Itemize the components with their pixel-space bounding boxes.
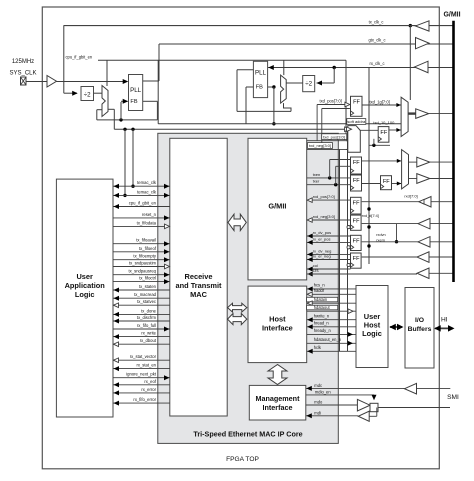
svg-text:rxd[7:0]: rxd[7:0] — [404, 194, 417, 199]
svg-text:hread_n: hread_n — [314, 321, 330, 326]
svg-text:txd_neg[3:0]: txd_neg[3:0] — [309, 143, 331, 148]
svg-text:hclk: hclk — [314, 345, 322, 350]
svg-text:rxd_neg[3:0]: rxd_neg[3:0] — [313, 214, 335, 219]
svg-text:rx_stat_vector: rx_stat_vector — [130, 354, 157, 359]
svg-text:tx_fifoeof: tx_fifoeof — [139, 246, 157, 251]
svg-text:gtx_clk_c: gtx_clk_c — [368, 38, 385, 43]
svg-text:PLL: PLL — [130, 87, 142, 94]
svg-text:Interface: Interface — [262, 324, 293, 333]
svg-text:SMI: SMI — [447, 394, 459, 401]
svg-text:txer: txer — [313, 179, 320, 184]
svg-text:reset_n: reset_n — [142, 212, 157, 217]
svg-text:mdo: mdo — [314, 400, 323, 405]
svg-text:FPGA TOP: FPGA TOP — [226, 456, 259, 463]
svg-text:FB: FB — [256, 85, 263, 91]
svg-text:rx_dv_pos: rx_dv_pos — [313, 230, 331, 235]
svg-text:txd_pos[3:0]: txd_pos[3:0] — [323, 134, 345, 139]
svg-text:txen: txen — [313, 172, 321, 177]
svg-text:tx_sndpausreq: tx_sndpausreq — [129, 269, 157, 274]
svg-text:hwrite_n: hwrite_n — [314, 314, 330, 319]
svg-text:tx_fifoavail: tx_fifoavail — [136, 238, 156, 243]
svg-text:Interface: Interface — [263, 403, 293, 412]
svg-text:Management: Management — [256, 394, 301, 403]
svg-text:PLL: PLL — [255, 70, 267, 77]
svg-text:tx_fifoctrl: tx_fifoctrl — [139, 276, 156, 281]
svg-text:Buffers: Buffers — [408, 326, 432, 333]
svg-text:÷2: ÷2 — [84, 92, 91, 99]
svg-text:Logic: Logic — [362, 329, 382, 338]
svg-text:G/MII: G/MII — [268, 202, 286, 211]
svg-text:hdataout_en_n: hdataout_en_n — [314, 337, 342, 342]
svg-text:I/O: I/O — [415, 317, 424, 324]
svg-text:rx_eof: rx_eof — [144, 379, 156, 384]
svg-text:G/MII: G/MII — [443, 12, 460, 19]
svg-text:txd_1g[7:0]: txd_1g[7:0] — [370, 100, 390, 105]
svg-text:rx_clk_c: rx_clk_c — [369, 61, 384, 66]
svg-text:hready_n: hready_n — [314, 328, 332, 333]
svg-text:rx_er_pos: rx_er_pos — [313, 236, 331, 241]
svg-text:tx_macread: tx_macread — [134, 292, 157, 297]
svg-text:haddr: haddr — [314, 288, 325, 293]
svg-text:tx_fifodata: tx_fifodata — [137, 220, 157, 225]
svg-text:FF: FF — [353, 256, 360, 262]
svg-text:mdi: mdi — [314, 411, 321, 416]
svg-text:tx_statvec: tx_statvec — [137, 299, 156, 304]
svg-text:tx_clk_c: tx_clk_c — [369, 20, 384, 25]
svg-text:and Transmit: and Transmit — [176, 281, 223, 290]
svg-text:cpu_if_gbit_en: cpu_if_gbit_en — [66, 55, 93, 60]
svg-text:tx_discfrm: tx_discfrm — [137, 315, 157, 320]
svg-text:crs: crs — [313, 268, 320, 273]
svg-text:temac_clk: temac_clk — [137, 189, 157, 194]
svg-text:rx_stat_en: rx_stat_en — [136, 363, 156, 368]
svg-text:hdatain: hdatain — [314, 297, 328, 302]
svg-text:tx_fifoempty: tx_fifoempty — [133, 254, 156, 259]
svg-text:FF: FF — [353, 239, 360, 245]
svg-text:tx_done: tx_done — [141, 308, 157, 313]
svg-text:rxdvn: rxdvn — [376, 233, 385, 237]
svg-text:rx_er_neg: rx_er_neg — [313, 254, 331, 259]
svg-text:Logic: Logic — [75, 290, 95, 299]
svg-text:tx_sndpaustim: tx_sndpaustim — [129, 261, 157, 266]
svg-text:User: User — [76, 272, 93, 281]
svg-text:FF: FF — [353, 100, 360, 106]
svg-text:FF: FF — [383, 179, 390, 185]
svg-text:rxd_d[7:4]: rxd_d[7:4] — [362, 214, 379, 218]
svg-text:txd_pos[7:0]: txd_pos[7:0] — [320, 99, 342, 104]
svg-text:hcs_n: hcs_n — [314, 283, 326, 288]
svg-text:rx_fifo_error: rx_fifo_error — [133, 397, 156, 402]
svg-text:hdataout: hdataout — [314, 305, 331, 310]
svg-text:Receive: Receive — [185, 272, 213, 281]
svg-text:cpu_if_gbit_en: cpu_if_gbit_en — [129, 201, 157, 206]
svg-text:FF: FF — [353, 218, 360, 224]
svg-text:Tri-Speed Ethernet MAC IP Core: Tri-Speed Ethernet MAC IP Core — [193, 430, 302, 439]
svg-text:Application: Application — [65, 281, 106, 290]
svg-text:mdc: mdc — [314, 383, 322, 388]
svg-text:txd_10_100: txd_10_100 — [373, 120, 395, 125]
svg-text:mdio_en: mdio_en — [315, 390, 331, 395]
svg-text:÷2: ÷2 — [305, 81, 312, 88]
svg-text:Host: Host — [269, 315, 286, 324]
svg-text:ignore_next_pkt: ignore_next_pkt — [126, 372, 157, 377]
svg-text:rxd_pos[7:0]: rxd_pos[7:0] — [313, 194, 335, 199]
svg-text:FF: FF — [353, 178, 360, 184]
svg-text:rx_dbout: rx_dbout — [140, 338, 157, 343]
svg-text:soft addra: soft addra — [347, 119, 366, 124]
svg-text:HI: HI — [441, 317, 448, 324]
svg-text:FF: FF — [380, 130, 387, 136]
svg-text:FF: FF — [353, 160, 360, 166]
svg-text:rx_error: rx_error — [141, 387, 156, 392]
svg-text:125MHz: 125MHz — [12, 59, 34, 65]
svg-text:temac_clk: temac_clk — [137, 180, 157, 185]
svg-text:MAC: MAC — [190, 290, 207, 299]
svg-text:rx_fifo_full: rx_fifo_full — [137, 323, 156, 328]
svg-text:rx_write: rx_write — [141, 331, 156, 336]
svg-text:FB: FB — [130, 99, 137, 105]
svg-text:SYS_CLK: SYS_CLK — [9, 71, 36, 77]
svg-text:FF: FF — [353, 201, 360, 207]
svg-text:tx_staten: tx_staten — [139, 284, 157, 289]
